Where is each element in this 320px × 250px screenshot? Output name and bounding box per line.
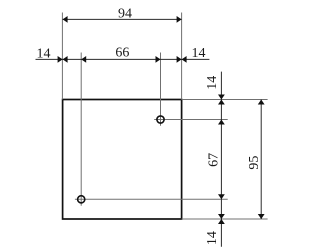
extension line hole1 (vertical, down to hole center) <box>80 53 82 206</box>
dimension line outer right (vertical 95) <box>260 100 262 220</box>
svg-text:14: 14 <box>192 46 206 61</box>
arrow row2 east-tip at plate-right <box>177 56 182 63</box>
svg-text:95: 95 <box>247 156 262 170</box>
extension line hole2 row (horizontal, east) <box>154 119 228 121</box>
extension line plate bottom (horizontal, east) <box>182 218 268 220</box>
arrow row2 west-tip at plate-right <box>182 56 187 63</box>
hole C1 (bottom-left) <box>78 196 85 203</box>
arrow inner south-tip at plate-bottom <box>218 214 225 219</box>
svg-text:14: 14 <box>205 76 220 90</box>
plate outline <box>63 100 182 220</box>
svg-text:67: 67 <box>207 153 222 167</box>
arrow outer north-tip at plate-top <box>258 100 265 105</box>
arrow 94 left (west) <box>63 16 68 23</box>
dimension line row2 (14/66/14) <box>36 58 210 60</box>
svg-text:14: 14 <box>205 231 220 245</box>
svg-text:94: 94 <box>118 6 132 21</box>
arrow inner south-tip at plate-top <box>218 95 225 100</box>
svg-text:14: 14 <box>37 47 51 62</box>
extension line right (plate right edge, vertical) <box>181 13 183 100</box>
arrow inner north-tip at plate-bottom <box>218 219 225 224</box>
arrow 94 right (east) <box>177 16 182 23</box>
extension line hole1 row (horizontal, east) <box>75 198 228 200</box>
arrow row2 west-tip at plate-left <box>63 56 68 63</box>
extension line plate top (horizontal, east) <box>182 99 268 101</box>
arrow row2 east-tip at plate-left <box>58 56 63 63</box>
arrow inner north-tip at plate-top <box>218 100 225 105</box>
hole C2 (top-right) <box>157 116 164 123</box>
arrow inner south-tip at hole1 row <box>218 194 225 199</box>
arrow inner north-tip at hole2 row <box>218 120 225 125</box>
extension line hole2 (vertical, down to hole center) <box>160 53 162 126</box>
svg-text:66: 66 <box>115 46 129 61</box>
extension line left (plate left edge, vertical) <box>61 13 63 100</box>
dimension line 94 (top) <box>63 18 182 20</box>
arrow outer south-tip at plate-bottom <box>258 214 265 219</box>
arrow row2 west-tip at hole1 line <box>81 56 86 63</box>
arrow row2 east-tip at hole2 line <box>156 56 161 63</box>
dimension line inner right (vertical 14/67/14) <box>220 72 222 247</box>
